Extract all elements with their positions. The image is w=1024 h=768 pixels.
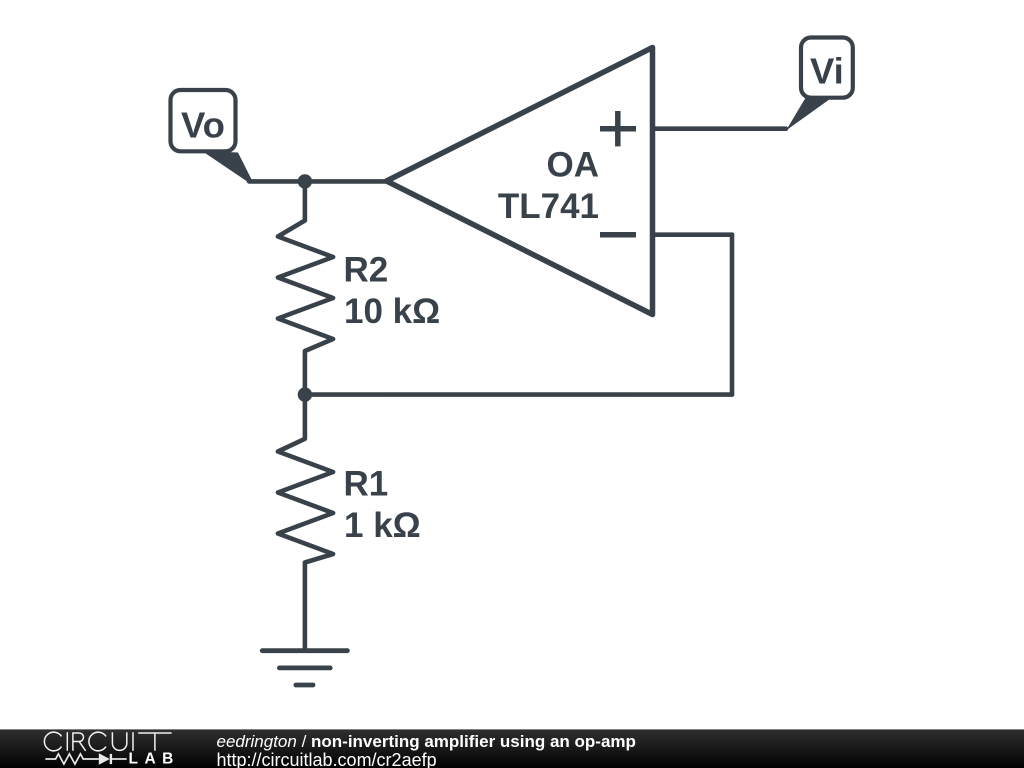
wire feedback: horizontal segment to node B	[305, 392, 732, 397]
flag Vo box	[171, 90, 236, 151]
svg-text:R2: R2	[344, 251, 389, 290]
ground symbol	[262, 651, 347, 685]
svg-text:Vo: Vo	[181, 105, 225, 146]
op-amp plus (+) input symbol	[600, 111, 636, 146]
node A junction dot (Vo / R2 / op-amp output)	[298, 174, 312, 188]
svg-text:LAB: LAB	[129, 751, 180, 768]
wire net Vo: flag tail tip to op-amp output apex	[249, 179, 388, 184]
op-amp U1 triangle body	[387, 48, 653, 315]
wire feedback: vertical segment	[730, 235, 735, 395]
svg-text:1 kΩ: 1 kΩ	[344, 506, 421, 545]
CircuitLab logo diode triangle	[99, 753, 110, 765]
CircuitLab logo wordmark CIRCUIT (thin custom glyphs)	[44, 732, 171, 751]
node B junction dot (R2 / R1 / feedback)	[298, 387, 312, 401]
flag Vi tail	[786, 97, 830, 131]
svg-text:eedrington / non-inverting amp: eedrington / non-inverting amplifier usi…	[217, 732, 636, 751]
svg-text:Vi: Vi	[810, 50, 844, 91]
op-amp minus (-) input symbol	[600, 232, 636, 238]
svg-text:TL741: TL741	[498, 187, 599, 226]
wire feedback: inverting input (-) right segment	[653, 232, 733, 237]
svg-text:http://circuitlab.com/cr2aefp: http://circuitlab.com/cr2aefp	[217, 750, 437, 768]
svg-text:OA: OA	[547, 146, 600, 185]
CircuitLab logo resistor-diode glyph	[45, 754, 126, 764]
svg-text:R1: R1	[344, 465, 389, 504]
resistor R1 (zigzag with leads)	[278, 395, 333, 650]
svg-text:10 kΩ: 10 kΩ	[344, 292, 440, 331]
resistor R2 (zigzag with leads)	[278, 181, 333, 394]
wire from non-inverting input (+) to Vi flag tail	[653, 126, 787, 131]
flag Vo tail	[202, 151, 253, 181]
flag Vi box	[801, 38, 853, 98]
